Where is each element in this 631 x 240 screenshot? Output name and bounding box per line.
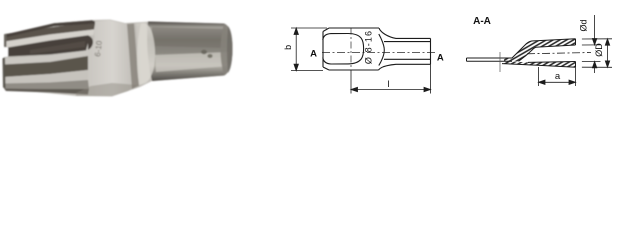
- barrel end: [430, 38, 432, 64]
- dimension D (outer): [605, 39, 609, 68]
- barrel inner wall lines: [384, 42, 431, 60]
- bottom wall bottom line: [502, 64, 576, 68]
- tongue outline: [467, 58, 513, 61]
- hatch: bend and top wall: [511, 39, 576, 62]
- dimension l: [351, 64, 431, 93]
- photo: upper prong dark top face: [5, 20, 95, 41]
- photo: lower prong bright band: [4, 70, 88, 84]
- photo: lower prong dark face: [4, 56, 88, 77]
- photo: lower prong tip face: [3, 58, 6, 89]
- svg-text:Ød: Ød: [579, 19, 589, 31]
- svg-text:A: A: [437, 52, 444, 63]
- hatch: tongue end and bottom wall: [504, 58, 519, 61]
- photo: lower prong bottom lip: [4, 89, 89, 95]
- bend inner line: [519, 45, 576, 61]
- photo: upper prong bright lower face: [5, 30, 94, 48]
- bend outer line: [512, 39, 576, 58]
- svg-text:b: b: [283, 45, 293, 50]
- photo: fork plate bright face: [84, 20, 141, 96]
- dimension b: [291, 28, 327, 71]
- svg-text:Ø 8-16: Ø 8-16: [364, 30, 374, 64]
- bore bottom line: [528, 61, 576, 64]
- slot contour (stadium): [323, 34, 364, 65]
- taper to barrel bottom: [379, 64, 431, 70]
- barrel right end: [575, 39, 577, 68]
- photo: stamp 6-10: [93, 40, 104, 58]
- photo: lower prong bright top face: [4, 43, 88, 65]
- svg-text:A: A: [310, 49, 317, 60]
- section: hatched regions: [504, 39, 576, 68]
- svg-text:A-A: A-A: [473, 16, 491, 27]
- taper to barrel top: [379, 28, 431, 38]
- photo: upper prong tip face: [4, 34, 7, 48]
- centerline horizontal: [322, 51, 437, 53]
- svg-text:ØD: ØD: [594, 43, 604, 57]
- photo: plate bottom shadow: [76, 83, 138, 96]
- photo: left white notch: [0, 47, 8, 58]
- photo: barrel: [137, 22, 233, 86]
- fork right edge bulge: [379, 34, 385, 66]
- slot vertical centerline: [350, 28, 352, 71]
- photo: neck crease: [127, 22, 150, 89]
- fork outline: [323, 28, 379, 70]
- centerline of bore: [527, 53, 591, 54]
- extension lines right: [582, 39, 612, 68]
- photo: lug base silhouette: [3, 20, 233, 97]
- photo: crimp marks: [201, 50, 213, 58]
- dimension a: [539, 67, 576, 86]
- dimension d (inner): [592, 15, 596, 73]
- slot center tick: [499, 52, 501, 72]
- photo: lower prong lower band: [4, 80, 89, 89]
- photo: slot shadow: [8, 35, 93, 56]
- svg-text:l: l: [387, 79, 389, 90]
- svg-text:a: a: [555, 71, 561, 82]
